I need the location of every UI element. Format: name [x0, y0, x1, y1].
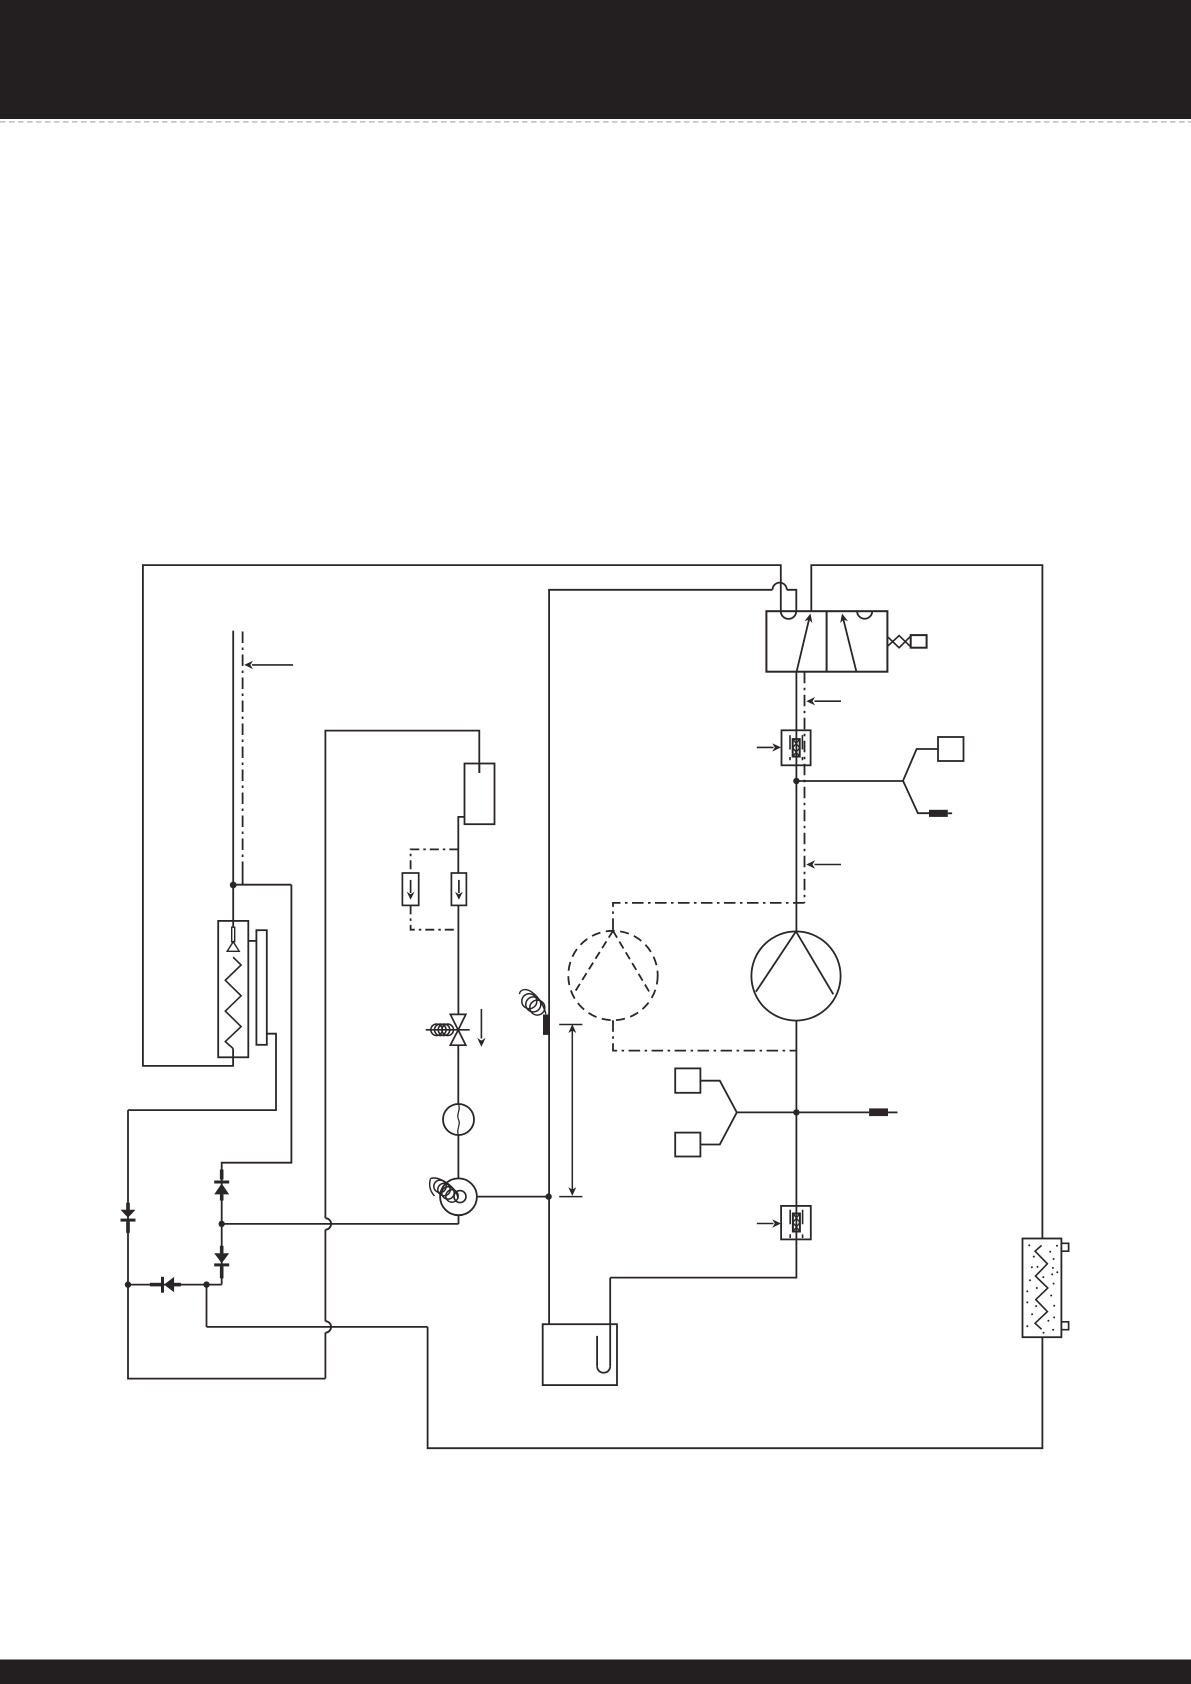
arrowhead: CV1b internal	[407, 892, 415, 900]
wire: HX plate bottom connector down to bottom-left liquid loop	[128, 1034, 276, 1110]
compressor U2 (optional, dashed)	[568, 931, 657, 1020]
receiver tank	[465, 764, 495, 825]
4-way valve pilot spring	[887, 636, 910, 648]
high pressure switch box	[938, 737, 964, 761]
check valve CV1 (below receiver)	[451, 873, 466, 905]
expansion device coil loops	[434, 1180, 446, 1192]
4-way valve right top port	[857, 611, 872, 619]
arrowhead: dimension top	[568, 1024, 576, 1033]
header band	[0, 0, 1191, 119]
HX1 heating coil zigzag	[225, 957, 241, 1048]
wire: service port stub	[888, 1111, 898, 1113]
check valve CV2 (x=128, flow down)	[126, 1203, 130, 1210]
wire: check valve column x=221.7 up to corner then right and up to HX node	[222, 885, 292, 1285]
sight glass	[443, 1104, 474, 1135]
check valve CV5 (y=1284.6, flow left)	[150, 1283, 161, 1287]
wire: indoor supply line into HX nozzle	[232, 631, 234, 928]
wire: discharge service port stub	[948, 812, 952, 814]
junction node at equalizer	[545, 1193, 551, 1199]
junction node at HX	[230, 882, 237, 889]
wire: compressor bottom to accumulator return	[610, 1021, 796, 1278]
wire: outer loop (HX drain, left side, top run, down into 4-way valve left port)	[143, 565, 781, 1066]
wire: expansion device to equalizer junction	[477, 1196, 549, 1198]
heat exchanger HX1 body	[218, 921, 248, 1057]
arrowhead: into muffler F1	[772, 743, 781, 751]
wire: dash-dot enclosure of optional compressor	[613, 903, 805, 931]
wire: dash-dot bypass branch at receiver check valve	[411, 849, 459, 873]
wire: HX plate top connector	[248, 940, 256, 942]
pressure switch box A	[675, 1068, 700, 1092]
HX1 nozzle	[232, 927, 235, 942]
faint perforation dashes under header	[0, 121, 1191, 123]
arrowhead: valve right flow arrow	[838, 613, 848, 623]
wire: hop over y=1223.9	[325, 1218, 331, 1229]
wire: hump to valve top port	[787, 590, 797, 611]
wire: expansion device bottom corner to liquid line	[458, 1215, 460, 1224]
outdoor coil body	[1023, 1239, 1062, 1338]
wire: bottom liquid line with check valve run	[128, 1284, 222, 1286]
wire: fork to high pressure switch	[903, 749, 938, 781]
4-way valve left flow arrow	[797, 618, 810, 672]
dimension arrow (equalizer span)	[559, 1025, 582, 1197]
wire: TXV to sight glass	[457, 1045, 459, 1104]
wire: fork to discharge service port	[903, 781, 929, 813]
TXV coil loops	[431, 1024, 443, 1036]
arrowhead: beside TXV (down)	[477, 1038, 485, 1047]
TXV expansion valve	[450, 1014, 466, 1045]
arrowhead: dimension bottom	[568, 1187, 576, 1196]
4-way reversing valve body	[766, 611, 887, 672]
wire: crossover hump over vertical at x=780.8	[773, 583, 787, 590]
outdoor coil tabs	[1061, 1243, 1068, 1329]
HX1 plate	[256, 930, 266, 1045]
4-way valve left top port	[781, 611, 796, 619]
wire: sight glass to expansion device	[457, 1135, 459, 1178]
4-way valve pilot solenoid box	[911, 635, 927, 648]
suction filter F2 cartridge	[793, 1214, 800, 1232]
wire: pressure switch pair fork at compressor tee	[700, 1081, 736, 1113]
wire: tee to service port	[796, 1111, 869, 1113]
wire: left check valve column x=128	[128, 1110, 325, 1379]
flow arrow at indoor dashed line	[252, 664, 293, 666]
wire: check valve to TXV	[457, 905, 459, 1014]
expansion device (capillary)	[440, 1178, 477, 1215]
flow arrow into muffler F1	[757, 746, 774, 748]
wire: horizontal to liquid-line junction (y=1326.9)	[207, 1326, 428, 1328]
junction node below muffler	[793, 778, 799, 784]
flow arrow beside TXV	[480, 1009, 482, 1039]
suction filter F2 body	[781, 1206, 811, 1240]
arrowhead: indoor dashed line	[244, 661, 253, 669]
service port (suction tee)	[869, 1108, 888, 1116]
compressor U1	[751, 931, 840, 1020]
wire: suction line from valve bottom to compressor top	[795, 672, 797, 932]
wire: accumulator U-tube right leg	[609, 1278, 611, 1367]
muffler F1 cartridge	[793, 739, 800, 756]
arrowhead: dash line upper	[806, 697, 815, 705]
receiver inlet dip tube	[478, 764, 480, 773]
4-way valve right flow arrow	[843, 618, 857, 672]
check valve CV3 (x=221.7, flow up)	[220, 1170, 224, 1180]
arrowhead: into filter F2	[772, 1219, 781, 1227]
flow arrow at dash line (lower)	[815, 864, 842, 866]
junction node at check valve column	[219, 1221, 225, 1227]
flow arrow into filter F2	[757, 1223, 774, 1225]
check valve CV1b (dashed bypass)	[402, 873, 418, 905]
wire: junction riser to dot on bottom liquid line	[206, 1285, 208, 1327]
junction node at compressor tee	[793, 1109, 799, 1115]
outdoor coil fin dots	[1028, 1244, 1030, 1246]
service port (discharge)	[929, 810, 948, 817]
outdoor coil zigzag	[1035, 1245, 1048, 1329]
wire: hop over y=1326.9	[325, 1321, 331, 1332]
wire: junction to switch/service fork	[796, 780, 903, 782]
pressure switch box B	[675, 1133, 700, 1157]
wire: receiver tank outlet to check valve	[458, 817, 464, 873]
muffler F1 body	[782, 730, 811, 765]
wire: 4-way valve to top-right run, down right side to outdoor coil	[811, 565, 1042, 1238]
junction node bottom-left A	[125, 1281, 131, 1287]
thermal bulb	[543, 1015, 549, 1035]
wire: accumulator U-tube left leg	[596, 1336, 598, 1366]
wire: dash-dot line from valve bottom (second compressor option)	[804, 672, 806, 903]
wire: HX node horizontal to x=291.4	[233, 884, 291, 886]
check valve CV4 (x=221.7, flow down)	[220, 1246, 224, 1254]
flow arrow at dash line (upper)	[815, 700, 842, 702]
wire: discharge riser and top line to 4-way valve (with crossover hump)	[549, 590, 772, 1324]
wire: outdoor coil bottom, bottom run, up left riser	[428, 1327, 1043, 1448]
accumulator	[543, 1324, 617, 1385]
arrowhead: dash line lower	[806, 860, 815, 868]
junction node bottom-left B	[203, 1281, 209, 1287]
thermal bulb coil on suction riser	[522, 994, 537, 1009]
arrowhead: valve left flow arrow	[805, 613, 815, 623]
wire: dashed indoor return line	[242, 632, 244, 872]
wire: accumulator U-tube bottom bend	[597, 1366, 610, 1373]
TXV solenoid coil line	[426, 1029, 470, 1031]
arrowhead: CV1 internal	[455, 892, 463, 900]
footer band	[0, 1660, 1191, 1684]
wire: vertical x=325.4 with two crossing hops	[324, 1333, 326, 1379]
